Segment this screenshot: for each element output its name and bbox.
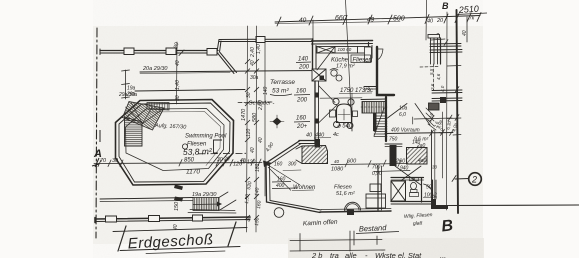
south stair arrow (193, 203, 221, 206)
scan tint over drawing area (93, 26, 483, 244)
diagonal connector wall (218, 53, 235, 74)
wall post black 3 (315, 139, 321, 148)
kitchen west window x-box (312, 69, 326, 81)
dashed sill east (420, 66, 439, 69)
south stair lower step (190, 210, 235, 211)
black post on east wall (440, 97, 446, 103)
title end slash right (228, 222, 236, 246)
grid line x247 (247, 26, 248, 232)
terrace north edge line (140, 71, 319, 74)
wc south wall (391, 201, 433, 203)
title band lines (113, 228, 247, 232)
boundary dash-dot line west (96, 28, 97, 238)
wc window x-box (391, 181, 406, 201)
wc sink (410, 193, 419, 197)
stair north wall (361, 98, 386, 101)
wall junction blob west2 (174, 197, 183, 202)
fireplace body (296, 146, 328, 164)
wohnen angled north wall (266, 141, 300, 164)
grid line x426 top (425, 0, 428, 40)
door arc south inner (346, 204, 359, 211)
dining guide lines (320, 97, 362, 99)
wc door arc (424, 184, 434, 196)
kitchen north wall (312, 40, 373, 43)
top dimension chain (275, 13, 481, 27)
wall junction blob west (174, 185, 183, 191)
fence post 1 (124, 48, 134, 55)
winder stair lower flight (125, 117, 143, 146)
black wall bar south of stair (390, 145, 397, 166)
leader lines from arrow (268, 165, 300, 185)
dining chairs (333, 98, 339, 104)
pool basin second rim (149, 112, 221, 166)
vorraum dim line long (385, 133, 453, 134)
L-wall hall west (377, 47, 394, 95)
stair landing hatch (361, 102, 387, 114)
hall west wall (377, 166, 379, 210)
scan gray strip bottom right (288, 238, 484, 258)
kitchen south stub wall (364, 86, 377, 88)
middle dimension line A-A (94, 159, 262, 167)
grid line x177 (176, 42, 179, 104)
sofa rect (366, 194, 386, 208)
south stair treads (188, 192, 236, 213)
black corner wall SE (431, 199, 448, 209)
grid line x313 top (312, 20, 314, 40)
tick to detail circle (455, 178, 469, 181)
window sill lines east (430, 43, 461, 46)
door arc south (344, 202, 360, 210)
wohnen south wall (320, 211, 391, 212)
dining west wall (314, 81, 316, 143)
door black square (347, 210, 354, 216)
fence step up (217, 40, 219, 53)
winder stair top landing (147, 103, 169, 111)
south wall window 3 (193, 215, 203, 221)
pool basin inner outline (126, 109, 225, 171)
section line B heavy (457, 10, 459, 213)
south wall window 1 (106, 216, 117, 222)
wc fixtures toilet (411, 182, 417, 189)
terrace double door leaves (319, 86, 335, 103)
wc east outer wall lower (432, 180, 434, 201)
hall dim line (331, 160, 410, 172)
dining table arch (337, 104, 352, 123)
wc north wall (391, 177, 424, 179)
grid line x256 (255, 26, 258, 232)
short tick and label 9 below chain (431, 39, 445, 40)
east wall dark box (429, 103, 440, 110)
terrace south inner edge (100, 198, 193, 202)
south wall window 2 (149, 216, 160, 222)
north fence wall upper run (219, 38, 313, 41)
fireplace nook north wall (299, 140, 316, 142)
kitchen door swing (377, 49, 383, 60)
wall line to east edge (448, 204, 579, 207)
wohnen round table (274, 208, 284, 218)
scan noise overlay (93, 0, 483, 258)
door tick vorraum (412, 117, 414, 124)
grid line x265 (264, 40, 266, 196)
kitchen west wall upper (312, 39, 314, 69)
fence post 4 (256, 37, 265, 43)
diamond survey marker (273, 118, 282, 126)
stair flight treads (283, 67, 454, 202)
fence post 3 (207, 49, 217, 56)
railing Gelaender dash line (238, 101, 272, 104)
detail circle 2 (469, 173, 482, 186)
kitchen counter row (317, 47, 370, 71)
wohnen west wall (265, 163, 268, 202)
terrace deck edge line (135, 90, 245, 92)
hall south hatched wall box (407, 148, 428, 165)
pool bracket (214, 140, 223, 154)
winder stair upper diagonal flight (123, 102, 170, 147)
small dim line nw (122, 70, 130, 99)
pool circle symbol (182, 144, 187, 149)
winder radiating treads (131, 102, 143, 124)
east wall lower hatch marks (426, 108, 436, 130)
house east wall upper (430, 38, 462, 101)
sofa table rect (370, 184, 381, 192)
long vertical x447 (446, 12, 449, 210)
hall wall stub (385, 143, 402, 145)
north fence wall lower run (100, 50, 218, 52)
house east wall upper cap (428, 35, 440, 39)
grid line x345 top (346, 0, 353, 131)
fence tick slash (179, 50, 184, 56)
title end slash left (118, 226, 126, 251)
kitchen window black post (320, 76, 325, 81)
kitchen east cabinets (365, 47, 372, 62)
stair east wall (385, 97, 387, 141)
bottom frame lines (290, 240, 382, 241)
octagon outer wall (116, 100, 234, 186)
wall post black 1 (315, 93, 320, 98)
arrow blob at wall x267 (263, 161, 272, 168)
wohnen sw diagonal wall (267, 202, 321, 213)
fence post 2 (166, 48, 176, 55)
east wall thin mid (433, 64, 435, 90)
main south wall (95, 215, 250, 223)
wall post black 2 (315, 119, 320, 124)
tick slashes on grid chain (245, 59, 259, 220)
section line cross ticks (444, 40, 461, 136)
wc east wall (421, 178, 423, 202)
wc small boxes (410, 178, 414, 181)
stair up arrow (374, 108, 384, 136)
kitchen sink circles (331, 70, 337, 76)
vorraum dim line short (414, 118, 452, 119)
vertical x467 short (466, 17, 468, 42)
kitchen east wall (368, 43, 370, 59)
vorraum door X (388, 104, 431, 186)
wire (100, 37, 313, 74)
east wall mid verticals (431, 130, 433, 201)
pool centre dash-dot (198, 152, 248, 155)
